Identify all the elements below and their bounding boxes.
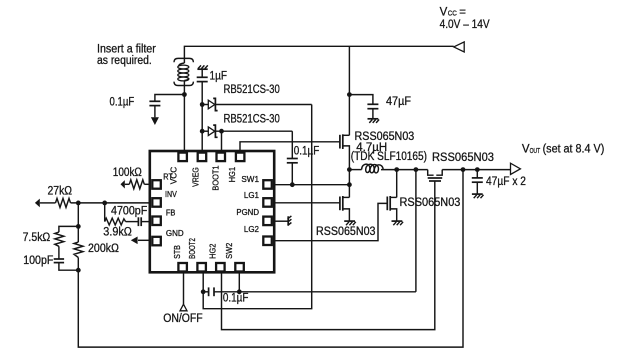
svg-text:GND: GND — [166, 229, 184, 238]
ground PGND (hatched sideways) — [274, 216, 291, 226]
svg-text:VCC: VCC — [170, 167, 179, 185]
svg-text:200kΩ: 200kΩ — [88, 243, 119, 255]
node SW2 sense — [414, 167, 419, 172]
svg-text:4700pF: 4700pF — [111, 205, 147, 217]
capacitor 100pF — [54, 246, 79, 270]
ground hatched (top of 1uF) — [197, 65, 207, 69]
capacitor 0.1uF input — [149, 101, 160, 117]
pin HG1 (top 4) — [236, 153, 245, 162]
ground arrow GND pin — [131, 237, 150, 245]
capacitor 47uF — [349, 95, 378, 119]
capacitor 1uF — [197, 69, 208, 81]
pin VCC (top 1) — [178, 153, 187, 162]
svg-text:RSS065N03: RSS065N03 — [400, 197, 461, 209]
svg-text:V: V — [440, 6, 448, 18]
svg-text:SW1: SW1 — [241, 175, 259, 184]
node BOOT1 tap — [219, 129, 224, 134]
wire STB drop — [183, 272, 185, 304]
inductor L1 4.7uH — [349, 164, 427, 173]
terminal Vcc input triangle — [454, 42, 465, 52]
svg-text:VREG: VREG — [192, 167, 201, 187]
pin INV (left 2) — [152, 198, 161, 207]
pin HG2 (bottom 3) — [216, 263, 225, 272]
svg-text:STB: STB — [173, 245, 182, 259]
svg-text:CC: CC — [448, 10, 457, 17]
wire Vcc rail — [184, 46, 453, 63]
pin BOOT1 (top 3) — [217, 153, 226, 162]
svg-text:0.1µF: 0.1µF — [294, 146, 320, 158]
svg-text:FB: FB — [166, 209, 176, 218]
resistor 27k — [35, 198, 150, 207]
node LS2 drain — [394, 167, 399, 172]
svg-text:0.1µF: 0.1µF — [223, 293, 249, 305]
svg-text:BOOT1: BOOT1 — [211, 165, 220, 191]
ground hatched (47uF x 2) — [472, 194, 484, 198]
wire LG2 run — [274, 203, 387, 240]
svg-text:RSS065N03: RSS065N03 — [316, 226, 376, 238]
wire D1 to BOOT2 — [203, 105, 312, 309]
pin VREG (top 2) — [198, 153, 207, 162]
svg-text:100pF: 100pF — [23, 255, 53, 267]
pin LG2 (right 4) — [263, 237, 272, 246]
wire Vcc vertical to power stage — [348, 46, 350, 135]
svg-text:47µF: 47µF — [386, 96, 411, 108]
svg-text:INV: INV — [165, 190, 177, 199]
node divider top — [76, 201, 81, 206]
pin GND (left 4) — [152, 237, 161, 246]
svg-text:RB521CS-30: RB521CS-30 — [224, 114, 280, 126]
svg-text:OUT: OUT — [530, 148, 541, 155]
svg-text:27kΩ: 27kΩ — [48, 185, 73, 197]
node divider bottom — [76, 268, 81, 273]
resistor 3.9k + capacitor 4700pF (comp) — [105, 203, 150, 226]
resistor 200k — [74, 242, 83, 257]
svg-text:as required.: as required. — [97, 55, 152, 67]
resistor 100k — [121, 180, 150, 189]
wire HG1 run — [240, 142, 340, 151]
svg-text:RB521CS-30: RB521CS-30 — [224, 84, 280, 96]
node BOOT2 cap tap — [201, 289, 206, 294]
pin SW1 (right 1) — [263, 180, 272, 189]
node Vout sense — [461, 167, 466, 172]
wire LG1 run — [274, 202, 340, 204]
wire HG2 run — [222, 181, 435, 330]
svg-text:1µF: 1µF — [210, 70, 228, 82]
node 47uF tap — [347, 92, 352, 97]
node output cap — [475, 167, 480, 172]
node junction filter/cap — [182, 92, 187, 97]
wire VCC vertical — [183, 81, 185, 152]
wire SW1 run — [274, 184, 349, 186]
ground hatched (47uF) — [368, 119, 380, 123]
svg-text:100kΩ: 100kΩ — [113, 167, 142, 179]
capacitor 47uF x 2 — [472, 170, 483, 194]
svg-text:HG2: HG2 — [209, 243, 218, 259]
svg-text:BOOT2: BOOT2 — [188, 238, 197, 259]
svg-text:4.0V – 14V: 4.0V – 14V — [440, 19, 490, 31]
diode D1 RB521CS-30 — [202, 98, 312, 110]
wire SW2 pin drop — [238, 272, 240, 292]
svg-text:(TDK SLF10165): (TDK SLF10165) — [351, 151, 427, 163]
ground arrow (down) — [151, 117, 159, 125]
node SW2 tap — [237, 289, 242, 294]
capacitor 0.1uF boot2 — [203, 287, 416, 296]
svg-text:HG1: HG1 — [228, 166, 237, 182]
wire SW2 riser right — [415, 170, 417, 292]
ground hatched (Q3) — [392, 221, 404, 225]
transistor Q2 RSS065N03 (low side ch1) — [340, 196, 350, 221]
svg-text:(set at 8.4 V): (set at 8.4 V) — [543, 144, 605, 156]
svg-text:47µF x 2: 47µF x 2 — [486, 176, 526, 188]
terminal VOUT triangle — [511, 163, 521, 174]
node SW1/inductor — [347, 167, 352, 172]
pin RT (left 1) — [152, 180, 161, 189]
svg-text:ON/OFF: ON/OFF — [163, 313, 203, 325]
node diode2 anode — [200, 129, 205, 134]
node 7.5k tee — [76, 224, 81, 229]
svg-text:RSS065N03: RSS065N03 — [432, 152, 494, 164]
wire FB sense — [78, 170, 463, 348]
svg-text:PGND: PGND — [236, 208, 259, 217]
svg-text:Insert a filter: Insert a filter — [97, 44, 156, 56]
ground hatched (Q2) — [344, 221, 356, 225]
svg-text:0.1µF: 0.1µF — [110, 96, 135, 108]
IC U1 body — [150, 151, 274, 272]
capacitor 0.1uF boot1 — [287, 131, 298, 185]
pin STB (bottom 1) — [178, 263, 187, 272]
svg-text:LG1: LG1 — [244, 191, 260, 200]
node diode1 anode — [200, 102, 205, 107]
wire divider vertical — [77, 203, 79, 242]
resistor 7.5k — [55, 232, 64, 246]
node comp branch — [102, 201, 107, 206]
wire VREG vertical — [201, 82, 203, 151]
node SW1 pin tee — [347, 182, 352, 187]
node boot1 cap to SW1 — [290, 182, 295, 187]
transistor Q4 RSS065N03 (output, horizontal) — [428, 170, 443, 181]
terminal ON/OFF triangle — [180, 304, 187, 311]
wire output rail — [442, 169, 510, 171]
inductor L-filter (shielded) — [174, 58, 193, 85]
wire SW node vertical — [348, 170, 350, 198]
wire to input cap — [155, 95, 185, 102]
svg-text:7.5kΩ: 7.5kΩ — [23, 232, 51, 244]
pin FB (left 3) — [152, 217, 161, 226]
svg-text:SW2: SW2 — [225, 242, 234, 259]
pin PGND (right 3) — [263, 217, 272, 226]
transistor Q1 RSS065N03 (high side ch1) — [340, 134, 350, 169]
transistor Q3 RSS065N03 (low side ch2) — [387, 170, 396, 221]
wire BOOT1 riser — [221, 131, 223, 151]
wire 7.5k branch top — [59, 226, 78, 232]
svg-text:LG2: LG2 — [244, 225, 260, 234]
pin SW2 (bottom 4) — [235, 263, 244, 272]
pin LG1 (right 2) — [263, 198, 272, 207]
svg-text:3.9kΩ: 3.9kΩ — [103, 227, 132, 239]
pin BOOT2 (bottom 2) — [197, 263, 206, 272]
svg-text:=: = — [459, 6, 466, 18]
diode D2 RB521CS-30 — [202, 125, 292, 137]
